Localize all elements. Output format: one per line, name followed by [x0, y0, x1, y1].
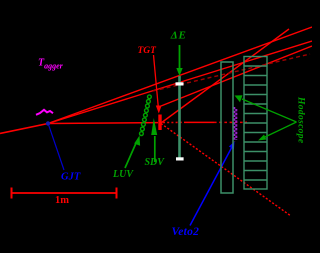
svg-text:Veto2: Veto2: [172, 226, 200, 238]
svg-text:LUV: LUV: [112, 169, 134, 180]
svg-text:1m: 1m: [55, 195, 69, 206]
svg-text:ΔE: ΔE: [170, 30, 187, 42]
svg-text:GJT: GJT: [61, 172, 81, 183]
svg-text:Hodoscope: Hodoscope: [296, 96, 306, 144]
svg-text:SDV: SDV: [145, 157, 166, 168]
svg-text:TGT: TGT: [138, 46, 158, 56]
